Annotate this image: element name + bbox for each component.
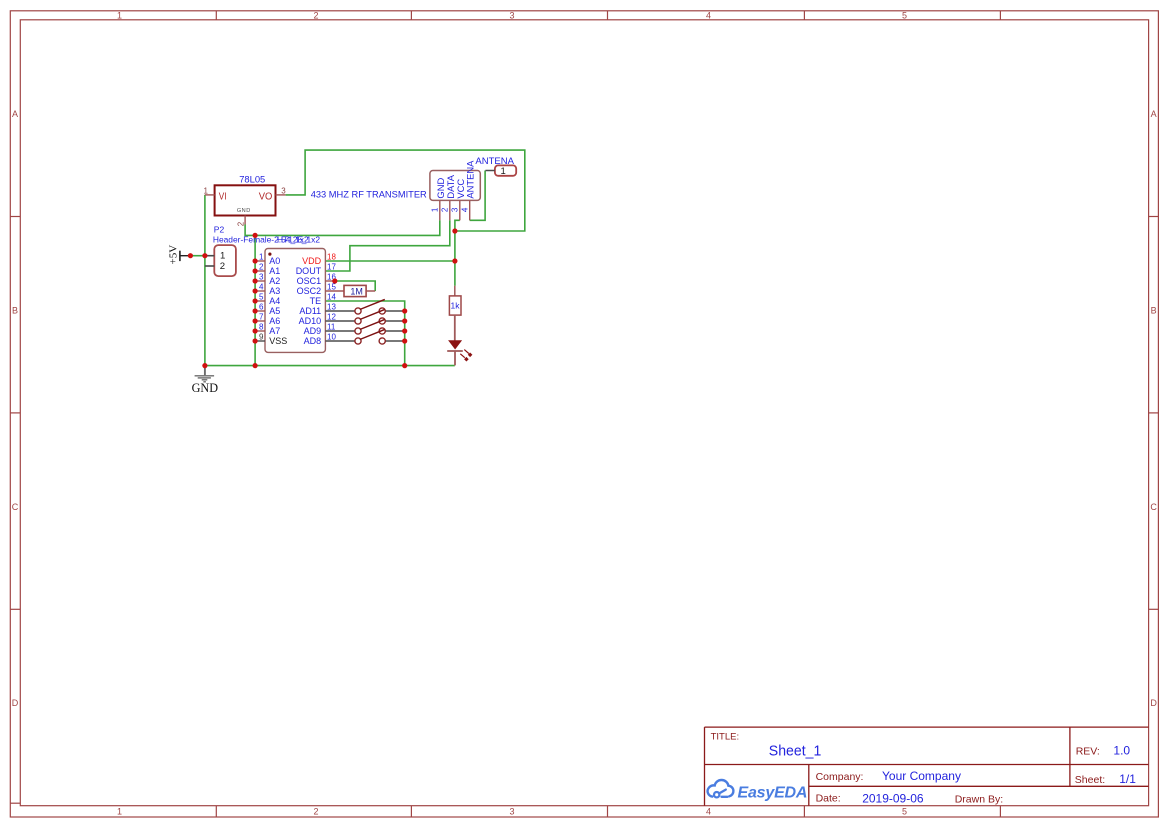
svg-text:8: 8 [259,323,264,332]
svg-text:A1: A1 [269,266,280,276]
svg-text:1.0: 1.0 [1113,744,1130,758]
svg-text:2: 2 [440,207,449,212]
svg-text:1: 1 [430,207,439,212]
svg-text:VSS: VSS [269,336,287,346]
svg-text:1k: 1k [451,301,461,311]
svg-text:D: D [12,698,19,708]
svg-text:D: D [1150,698,1157,708]
svg-text:5: 5 [902,807,907,817]
svg-text:A: A [12,109,18,119]
svg-text:1: 1 [259,253,264,262]
svg-text:2: 2 [259,263,264,272]
svg-text:6: 6 [259,303,264,312]
svg-text:11: 11 [327,323,336,332]
svg-text:1: 1 [203,187,208,196]
svg-text:A2: A2 [269,276,280,286]
svg-text:AD11: AD11 [299,306,321,316]
svg-text:B: B [12,305,18,315]
svg-text:2: 2 [313,807,318,817]
svg-text:C: C [12,502,19,512]
svg-text:3: 3 [259,273,264,282]
svg-text:GND: GND [192,381,219,395]
svg-text:Sheet_1: Sheet_1 [769,743,822,759]
svg-text:DOUT: DOUT [296,266,322,276]
svg-text:2: 2 [237,221,246,226]
svg-text:17: 17 [327,263,336,272]
svg-text:AD9: AD9 [304,326,322,336]
svg-text:3: 3 [450,207,459,212]
svg-text:A6: A6 [269,316,280,326]
svg-text:P2: P2 [214,225,225,235]
svg-text:5: 5 [259,293,264,302]
svg-text:GND: GND [237,208,251,214]
svg-text:REV:: REV: [1076,746,1100,758]
svg-text:TE: TE [310,296,322,306]
svg-text:4: 4 [259,283,264,292]
svg-text:14: 14 [327,293,336,302]
svg-text:15: 15 [327,283,336,292]
svg-text:1: 1 [117,807,122,817]
svg-text:4: 4 [460,207,469,212]
svg-text:Date:: Date: [816,793,841,805]
svg-text:1: 1 [500,166,505,177]
svg-text:Company:: Company: [816,771,864,783]
svg-text:4: 4 [706,10,711,20]
svg-text:3: 3 [509,10,514,20]
svg-text:Drawn By:: Drawn By: [955,793,1003,805]
svg-text:12: 12 [327,313,336,322]
svg-text:3: 3 [281,186,286,195]
svg-text:A3: A3 [269,286,280,296]
svg-text:A7: A7 [269,326,280,336]
svg-text:TITLE:: TITLE: [711,731,740,742]
svg-text:3: 3 [509,807,514,817]
svg-text:2: 2 [313,10,318,20]
svg-text:433 MHZ RF TRANSMITER: 433 MHZ RF TRANSMITER [311,189,427,199]
svg-text:A: A [1151,109,1157,119]
svg-text:_1x2: _1x2 [301,235,321,245]
svg-text:78L05: 78L05 [239,173,265,184]
svg-text:A0: A0 [269,256,280,266]
svg-text:1/1: 1/1 [1119,772,1136,786]
svg-text:ANTENA: ANTENA [465,160,476,199]
svg-text:C: C [1150,502,1157,512]
svg-text:18: 18 [327,253,336,262]
svg-text:EasyEDA: EasyEDA [738,784,808,801]
svg-text:B: B [1151,305,1157,315]
svg-text:+5V: +5V [168,245,180,265]
svg-text:VO: VO [259,190,273,202]
svg-text:VI: VI [219,190,227,202]
svg-text:Your Company: Your Company [882,769,961,783]
svg-text:Sheet:: Sheet: [1075,774,1105,786]
svg-text:1: 1 [117,10,122,20]
svg-text:9: 9 [259,333,264,342]
svg-text:2: 2 [220,261,225,272]
svg-text:10: 10 [327,333,336,342]
svg-text:7: 7 [259,313,264,322]
svg-text:1M: 1M [350,286,363,296]
svg-text:4: 4 [706,807,711,817]
svg-text:OSC2: OSC2 [297,286,322,296]
svg-text:VDD: VDD [302,256,322,266]
svg-text:AD10: AD10 [299,316,322,326]
svg-text:HT12E: HT12E [277,235,304,245]
svg-text:OSC1: OSC1 [297,276,322,286]
svg-text:5: 5 [902,10,907,20]
svg-text:A5: A5 [269,306,280,316]
svg-text:2019-09-06: 2019-09-06 [862,791,924,805]
svg-text:13: 13 [327,303,336,312]
svg-text:A4: A4 [269,296,280,306]
svg-text:AD8: AD8 [304,336,322,346]
